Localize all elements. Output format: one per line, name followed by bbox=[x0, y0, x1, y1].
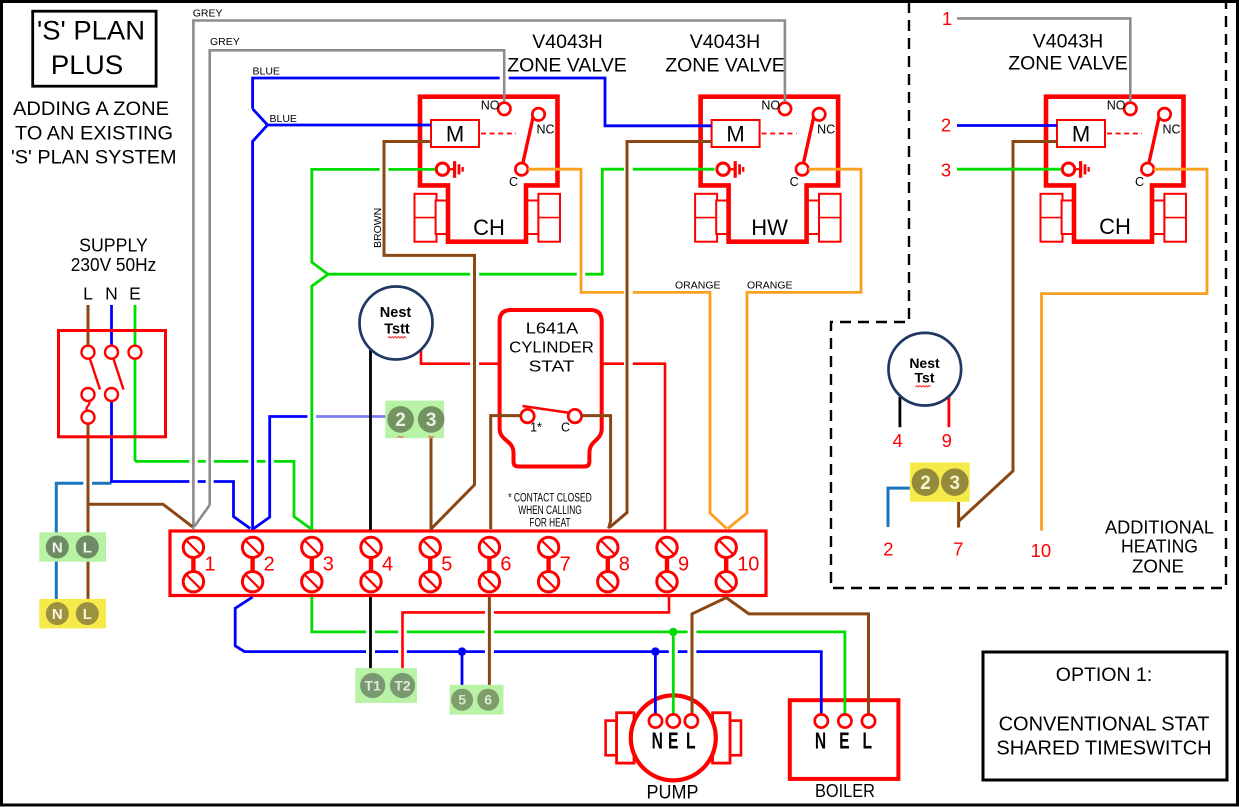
dashed border: additional heating zone bbox=[831, 2, 1226, 588]
terminal 2 bbox=[242, 537, 274, 592]
svg-text:PUMP: PUMP bbox=[647, 782, 699, 804]
junction dot blue (pump N) bbox=[651, 647, 659, 655]
svg-text:L: L bbox=[83, 284, 93, 304]
svg-text:9: 9 bbox=[678, 554, 689, 576]
svg-text:OPTION 1:: OPTION 1: bbox=[1056, 664, 1152, 686]
svg-text:L: L bbox=[83, 539, 92, 556]
svg-text:CYLINDER: CYLINDER bbox=[509, 339, 594, 356]
svg-text:1: 1 bbox=[204, 554, 215, 576]
svg-text:2: 2 bbox=[941, 115, 951, 136]
svg-text:BLUE: BLUE bbox=[270, 113, 297, 125]
svg-text:SUPPLY: SUPPLY bbox=[79, 236, 148, 256]
junction dot blue (badge 5) bbox=[458, 647, 466, 655]
zone valve 2 (HW motorised valve) bbox=[695, 97, 841, 242]
wire red: terminal 9 to T2 badge bbox=[403, 597, 670, 673]
nest thermostat 1 bbox=[360, 287, 433, 360]
svg-text:7: 7 bbox=[953, 539, 963, 560]
wire teal: supply N pigtail to N badges bbox=[56, 483, 111, 602]
svg-text:HEATING: HEATING bbox=[1121, 537, 1198, 557]
wire brown: terminal 10 to pump L and boiler L bbox=[692, 598, 869, 715]
svg-text:8: 8 bbox=[619, 554, 630, 576]
svg-text:BROWN: BROWN bbox=[372, 208, 384, 248]
wire red: nest 2 lead bbox=[948, 397, 951, 427]
svg-text:BOILER: BOILER bbox=[815, 781, 875, 801]
nest 1 T1-T2 badge bbox=[355, 668, 417, 703]
svg-text:PLUS: PLUS bbox=[51, 50, 124, 80]
terminal 7 bbox=[538, 537, 570, 592]
svg-text:5: 5 bbox=[441, 554, 452, 576]
wire grey: node 1 to valve 3 NO bbox=[957, 18, 1130, 101]
svg-text:E: E bbox=[668, 729, 678, 755]
svg-text:TO AN EXISTING: TO AN EXISTING bbox=[15, 122, 173, 144]
svg-text:ZONE VALVE: ZONE VALVE bbox=[665, 55, 785, 77]
wire orange: valve 1 C to terminal 10 bbox=[528, 169, 727, 528]
svg-text:10: 10 bbox=[737, 554, 759, 576]
svg-text:1*: 1* bbox=[530, 421, 542, 435]
svg-text:CH: CH bbox=[473, 215, 505, 240]
terminal strip (terminals 1-10) bbox=[170, 531, 766, 596]
svg-text:FOR HEAT: FOR HEAT bbox=[529, 518, 570, 530]
wire black: nest 2 lead bbox=[899, 397, 902, 427]
terminal 8 bbox=[598, 537, 630, 592]
svg-text:2: 2 bbox=[920, 473, 931, 494]
svg-text:N: N bbox=[652, 729, 663, 755]
pump body bbox=[606, 695, 741, 780]
svg-text:HW: HW bbox=[751, 215, 788, 240]
junction dot green (pump E) bbox=[669, 628, 677, 636]
svg-text:ORANGE: ORANGE bbox=[747, 280, 793, 292]
svg-text:2: 2 bbox=[395, 410, 406, 431]
wire blue: supply N to terminal 2 bbox=[112, 305, 251, 529]
svg-text:N: N bbox=[815, 729, 826, 755]
wire orange: valve 2 C to terminal 10 bbox=[728, 169, 861, 528]
wire green: node 3 to valve 3 earth bbox=[957, 168, 1061, 171]
wire violet: terminal 2 link to nest badge 2 bbox=[316, 415, 387, 418]
wire brown: valve 2 M to terminal 8 bbox=[610, 142, 712, 528]
wire blue: terminal 2 to valve 1 M and valve 2 M bbox=[253, 78, 712, 530]
svg-text:ORANGE: ORANGE bbox=[675, 280, 721, 292]
nest 1 terminal badge 2-3 bbox=[385, 401, 444, 439]
svg-text:L: L bbox=[863, 729, 873, 755]
svg-text:C: C bbox=[561, 421, 570, 435]
svg-text:* CONTACT CLOSED: * CONTACT CLOSED bbox=[508, 493, 592, 505]
wire blue: terminal 2 to nest badge 2 bbox=[254, 417, 308, 529]
svg-text:GREY: GREY bbox=[193, 8, 223, 20]
svg-text:5: 5 bbox=[458, 692, 466, 708]
svg-text:V4043H: V4043H bbox=[1033, 31, 1103, 53]
nest thermostat 2 bbox=[889, 333, 962, 406]
svg-text:BLUE: BLUE bbox=[253, 66, 280, 78]
wire brown: nest badge 3 to terminal 5 bbox=[430, 432, 433, 530]
svg-text:3: 3 bbox=[426, 410, 437, 431]
wire brown: stat 1* to terminal 6 bbox=[491, 416, 521, 529]
boiler body bbox=[790, 700, 899, 779]
pump terminals N E L bbox=[649, 714, 698, 754]
zone valve 1 (CH motorised valve) bbox=[415, 97, 561, 242]
svg-text:L641A: L641A bbox=[526, 321, 579, 338]
svg-text:2: 2 bbox=[264, 554, 275, 576]
option 1 box bbox=[983, 652, 1227, 780]
supply N-L badge (green) bbox=[39, 532, 106, 561]
wire green: supply E to terminal 3 bbox=[135, 305, 311, 529]
svg-text:6: 6 bbox=[500, 554, 511, 576]
svg-text:L: L bbox=[686, 729, 696, 755]
svg-text:V4043H: V4043H bbox=[690, 31, 760, 53]
svg-text:ZONE VALVE: ZONE VALVE bbox=[1008, 53, 1128, 75]
boiler terminals N E L bbox=[815, 714, 875, 754]
svg-text:Tst: Tst bbox=[915, 370, 935, 386]
svg-text:7: 7 bbox=[560, 554, 571, 576]
wire brown: nest 2 badge 3 stub to node 7 bbox=[957, 502, 960, 528]
svg-text:2: 2 bbox=[883, 539, 893, 560]
terminal 9 bbox=[657, 537, 689, 592]
svg-text:ZONE VALVE: ZONE VALVE bbox=[507, 55, 627, 77]
wire green: branch to valve 2 earth bbox=[328, 169, 715, 274]
svg-text:'S' PLAN SYSTEM: 'S' PLAN SYSTEM bbox=[11, 147, 177, 169]
terminal 10 bbox=[716, 537, 759, 592]
svg-text:3: 3 bbox=[323, 554, 334, 576]
wire grey: terminal 1 to valve 2 NO bbox=[193, 21, 785, 531]
terminal 4 bbox=[361, 537, 393, 592]
terminal 6 bbox=[479, 537, 511, 592]
wire blue: nest 2 badge to node 2 bbox=[888, 488, 910, 527]
svg-text:Nest: Nest bbox=[380, 305, 412, 321]
svg-text:STAT: STAT bbox=[529, 358, 575, 375]
svg-text:ADDITIONAL: ADDITIONAL bbox=[1105, 518, 1214, 538]
wire green: terminal 3 to pump/boiler E bbox=[312, 597, 845, 715]
svg-text:T1: T1 bbox=[365, 678, 382, 694]
svg-text:9: 9 bbox=[942, 430, 952, 451]
svg-text:T2: T2 bbox=[394, 678, 411, 694]
svg-text:4: 4 bbox=[893, 430, 903, 451]
svg-text:N: N bbox=[52, 539, 63, 556]
svg-text:1: 1 bbox=[942, 8, 952, 29]
title box 'S' PLAN PLUS bbox=[33, 11, 156, 86]
wire brown: valve 1 M to terminal 5 bbox=[384, 142, 475, 529]
cylinder stat L641A bbox=[500, 310, 602, 530]
svg-text:3: 3 bbox=[941, 160, 951, 181]
wire blue: terminal 2 to pump N and boiler N bbox=[235, 597, 821, 715]
wire red: nest 1 to terminal 9 bbox=[421, 350, 665, 530]
svg-text:Tstt: Tstt bbox=[384, 322, 410, 338]
svg-text:6: 6 bbox=[484, 692, 492, 708]
wire brown: supply L to terminal 1 and L badges bbox=[88, 305, 193, 602]
zone valve 3 (CH motorised valve, additional zone) bbox=[1041, 97, 1187, 242]
svg-text:10: 10 bbox=[1031, 540, 1052, 561]
supply isolator switch box bbox=[59, 331, 166, 437]
svg-text:WHEN CALLING: WHEN CALLING bbox=[518, 505, 582, 517]
svg-text:'S' PLAN: 'S' PLAN bbox=[37, 16, 145, 46]
svg-text:3: 3 bbox=[950, 473, 961, 494]
wire brown: valve 3 M to node 7 bbox=[959, 142, 1057, 528]
svg-text:L: L bbox=[83, 606, 92, 623]
svg-text:E: E bbox=[129, 284, 141, 304]
wire green: overlay at valve 3 brown crossing bbox=[1007, 168, 1020, 171]
svg-text:ADDING A ZONE: ADDING A ZONE bbox=[13, 98, 169, 120]
svg-text:230V 50Hz: 230V 50Hz bbox=[71, 255, 156, 275]
wire brown: terminal 6 to badge 6 bbox=[488, 597, 491, 689]
wire grey: terminal 1 to valve 1 NO bbox=[194, 50, 504, 526]
svg-text:ZONE: ZONE bbox=[1132, 557, 1184, 577]
wire brown: stat C to terminal 8 bbox=[582, 416, 611, 529]
nest 2 terminal badge 2-3 (yellow) bbox=[910, 463, 970, 502]
svg-text:CH: CH bbox=[1099, 214, 1131, 239]
terminal 5 bbox=[420, 537, 452, 592]
svg-text:N: N bbox=[105, 284, 118, 304]
svg-text:N: N bbox=[52, 606, 63, 623]
wire black: nest 1 to terminal 4 and T1 badge bbox=[369, 350, 372, 673]
wire orange: valve 3 C to node 10 bbox=[1042, 169, 1208, 531]
svg-text:V4043H: V4043H bbox=[532, 31, 602, 53]
terminal badge 5-6 bbox=[450, 685, 504, 715]
terminal 1 bbox=[183, 537, 215, 592]
svg-text:SHARED TIMESWITCH: SHARED TIMESWITCH bbox=[996, 738, 1211, 760]
svg-text:CONVENTIONAL STAT: CONVENTIONAL STAT bbox=[999, 714, 1210, 736]
svg-text:4: 4 bbox=[382, 554, 393, 576]
wire blue: node 2 to valve 3 M bbox=[957, 124, 1057, 127]
supply N-L badge (yellow) bbox=[39, 599, 106, 629]
wire green: terminal 3 to valve 1 earth bbox=[312, 169, 435, 530]
svg-text:GREY: GREY bbox=[210, 36, 240, 48]
terminal 3 bbox=[302, 537, 334, 592]
svg-text:E: E bbox=[839, 729, 849, 755]
